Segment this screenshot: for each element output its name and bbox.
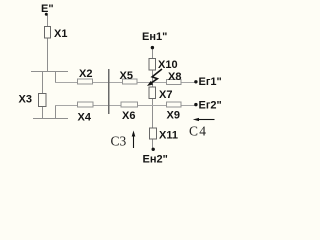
svg-text:X7: X7 xyxy=(159,89,172,101)
svg-text:Е": Е" xyxy=(41,3,54,15)
svg-text:X11: X11 xyxy=(159,130,178,142)
svg-text:X5: X5 xyxy=(120,70,133,82)
svg-text:X8: X8 xyxy=(168,71,181,83)
svg-text:X2: X2 xyxy=(79,68,92,80)
svg-text:X3: X3 xyxy=(19,94,32,106)
svg-text:X1: X1 xyxy=(54,28,67,40)
svg-text:Ег1": Ег1" xyxy=(199,76,222,88)
svg-text:X10: X10 xyxy=(158,59,178,71)
svg-text:Ег2": Ег2" xyxy=(199,100,222,112)
svg-text:Ен2": Ен2" xyxy=(143,154,168,166)
svg-text:X4: X4 xyxy=(78,112,92,124)
svg-text:Ен1": Ен1" xyxy=(142,31,167,43)
svg-text:С4: С4 xyxy=(189,124,207,139)
svg-text:X6: X6 xyxy=(122,110,135,122)
svg-text:X9: X9 xyxy=(167,110,180,122)
svg-text:С3: С3 xyxy=(111,134,127,149)
